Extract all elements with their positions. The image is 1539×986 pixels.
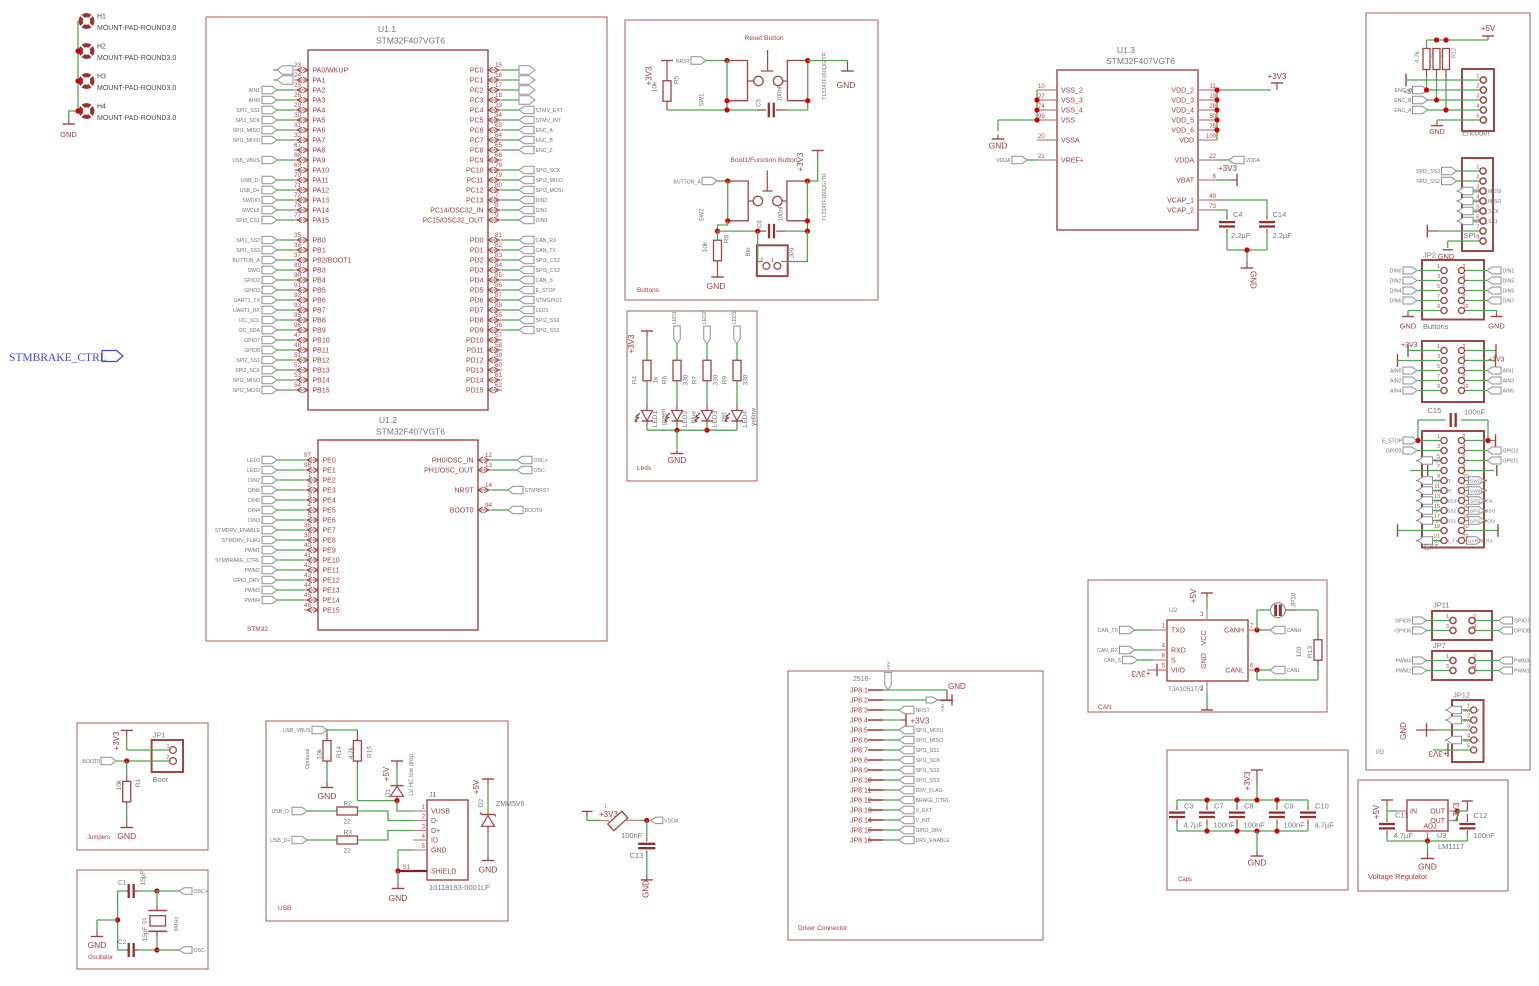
U1.2 pin 94 BOOT0 [450,502,542,514]
svg-text:81: 81 [495,232,503,239]
junction caps bottom [1274,828,1279,833]
svg-text:51: 51 [294,352,302,359]
svg-text:7: 7 [1476,225,1479,231]
U1.1 pin 59 PD12 [466,352,503,364]
svg-text:USB_D-: USB_D- [241,178,260,184]
wire NRST to SW1 [706,60,727,62]
svg-text:GPIO6: GPIO6 [1395,629,1411,635]
capacitor C14 2.2uF [1259,210,1292,250]
svg-text:C10: C10 [1315,802,1329,811]
svg-text:GND: GND [1418,862,1437,872]
svg-text:78: 78 [495,162,503,169]
svg-text:SPI3_MISO: SPI3_MISO [536,178,563,184]
wire to GND [1427,841,1429,852]
svg-text:LED3: LED3 [732,311,738,324]
svg-text:U1.3: U1.3 [1117,45,1135,55]
wire to gnd [97,919,118,921]
wire LED2 to rail [676,421,678,425]
svg-text:PWM2: PWM2 [1395,669,1411,675]
svg-text:7: 7 [1437,374,1440,380]
svg-text:PB4: PB4 [313,278,326,285]
ground SPI [1438,250,1455,261]
svg-text:PC2: PC2 [470,88,484,95]
U1.1 pin 36 PB1 [236,242,326,254]
svg-text:PE13: PE13 [323,588,340,595]
ground VSS [997,135,999,140]
svg-text:16: 16 [495,72,503,79]
svg-text:35: 35 [294,232,302,239]
svg-text:RXD: RXD [1171,648,1186,655]
svg-text:39: 39 [304,532,312,539]
svg-text:24: 24 [294,72,302,79]
svg-text:PC8: PC8 [470,148,484,155]
svg-text:PA12: PA12 [313,188,330,195]
net flag USB_D+ [270,836,337,844]
U1.1 pin 15 PC0 [470,62,535,74]
net flag SPI2_SCK [1457,207,1500,215]
net flag BUTTON_A [673,177,717,185]
svg-text:VDD_6: VDD_6 [1171,128,1194,135]
svg-text:ID: ID [431,838,438,845]
svg-text:PA2: PA2 [313,88,326,95]
svg-text:41: 41 [304,552,312,559]
svg-text:UART1_RX: UART1_RX [1468,539,1494,545]
resistor R12 4.7k [1443,48,1458,110]
ground C13 [641,875,653,898]
wire +5V rail encoder [1427,39,1489,41]
U1.1 pin 30 PA5 [235,112,325,124]
junction ENC_Z pullup [1424,87,1429,92]
svg-text:VDDA: VDDA [1175,158,1195,165]
U1.3 pin 22 VDDA [1175,154,1217,165]
svg-text:87: 87 [495,292,503,299]
svg-text:H3: H3 [97,74,106,81]
svg-text:37: 37 [294,252,302,259]
svg-text:Caps: Caps [1178,877,1192,883]
svg-text:DRV_FLAG: DRV_FLAG [916,788,943,794]
wire R15 down [356,761,358,764]
svg-text:R2: R2 [344,801,353,808]
svg-text:95: 95 [294,312,302,319]
svg-text:49: 49 [1209,194,1216,200]
svg-text:VUSB: VUSB [431,809,450,816]
U1.1 pin 67 PA8 [294,142,325,154]
wire cap gnd rail [1227,249,1267,251]
ground reset button [837,61,856,91]
svg-text:PA14: PA14 [313,208,330,215]
svg-text:5: 5 [1476,114,1479,120]
wire R4 to LED1 [646,381,648,405]
U1.1 pin 53 PB14 [233,372,330,384]
AIN pins 3/4 power bars [1398,354,1496,367]
svg-text:65: 65 [495,142,503,149]
U1.1 pin 26 PA3 [248,92,325,104]
U1.1 pin 77 PA15 [236,212,329,224]
svg-text:PC1: PC1 [470,78,484,85]
svg-text:AIN0: AIN0 [1390,369,1402,375]
svg-text:V_EXT: V_EXT [916,808,933,814]
wire LED1 to rail [646,421,648,425]
svg-text:100nF: 100nF [778,84,784,101]
svg-text:STMBRAKE_CTRL: STMBRAKE_CTRL [215,558,260,564]
svg-text:31: 31 [294,122,302,129]
jumper JP1 Boot [152,731,183,785]
svg-text:PB7: PB7 [313,308,326,315]
svg-text:SW2: SW2 [700,208,706,222]
svg-text:GND: GND [479,865,498,875]
wire C15 right down [1487,420,1489,441]
svg-text:SPI2_SS3: SPI2_SS3 [536,328,560,334]
section box Oscillator [77,870,208,969]
junction SW1 top-right [805,58,810,63]
svg-text:10k: 10k [652,81,659,92]
wire SW2 left riser [727,181,729,221]
svg-text:3: 3 [1437,444,1440,450]
svg-text:ADJ: ADJ [1423,824,1436,831]
svg-text:H4: H4 [97,104,106,111]
svg-text:21: 21 [1434,534,1440,540]
svg-text:DIN7: DIN7 [248,478,260,484]
U1.3 pin 27 VSS_3 [1037,94,1083,105]
svg-text:89: 89 [294,262,302,269]
svg-text:STMDRV_ENABLE: STMDRV_ENABLE [215,528,261,534]
svg-text:I2C_SCL: I2C_SCL [239,318,260,324]
svg-text:DIN1: DIN1 [536,208,548,214]
svg-text:C12: C12 [1474,811,1488,820]
svg-text:SWCLK: SWCLK [1470,479,1488,485]
section box Driver Connector [788,671,1043,940]
U1.1 pin 82 PD1 [470,242,557,254]
U1.1 pin 68 PA9 [232,152,325,164]
svg-text:4.7µF: 4.7µF [1315,821,1335,830]
svg-text:3: 3 [1476,94,1479,100]
svg-text:GND: GND [88,940,107,950]
svg-text:OSC+: OSC+ [194,889,208,895]
capacitor C5 100nF [757,84,808,117]
svg-text:33: 33 [495,102,503,109]
svg-text:VSS_3: VSS_3 [1061,98,1083,105]
U1.3 pin 73 VCAP_2 [1167,204,1217,215]
svg-text:SPI1_MISO: SPI1_MISO [916,738,943,744]
svg-text:J1: J1 [429,790,437,799]
svg-text:R14: R14 [336,746,343,758]
svg-text:PB11: PB11 [313,348,330,355]
svg-text:83: 83 [495,252,503,259]
EXT pins 9/10 SWDAT/SWCLK [1416,474,1488,485]
U2 pin 4 RXD [1097,644,1167,655]
JP12 pin 5 [1467,744,1477,754]
svg-text:+3V3: +3V3 [1428,749,1447,758]
SPI pin 7 [1476,225,1486,235]
svg-text:10k: 10k [702,241,709,252]
svg-text:93: 93 [294,302,302,309]
J1 pin 5 GND [413,844,447,855]
U1.3 pin 11 VDD_2 [1171,84,1217,95]
wire VCAP_1 to C14 [1217,200,1267,216]
wire BUTTON_A to SW2 [717,180,728,182]
U1.1 pin 55 PD8 [470,312,560,324]
caps top rail [1177,799,1308,801]
svg-text:120: 120 [1296,646,1303,657]
connector pin JP8.11 [850,786,943,794]
svg-text:9: 9 [495,212,499,219]
svg-text:PE1: PE1 [323,468,336,475]
net flag SPI2_MOSI [1457,187,1502,195]
U1.2 pin 41 PE10 [215,552,340,564]
power +3V3 caps [1243,770,1263,790]
U3 OUT pin [1448,810,1455,812]
junction VSS_4 [1034,107,1039,112]
resistor R6 330 [662,360,690,385]
svg-text:JP8.12: JP8.12 [850,798,872,805]
ground JP12 pin3 [1399,722,1470,740]
Encoder pin 4 [1462,104,1487,114]
junction CANL [1254,667,1259,672]
svg-text:PWM3: PWM3 [244,588,260,594]
svg-text:330: 330 [713,374,720,385]
wire J1 GND [398,849,413,851]
U2 pin 5 VI/O +3V3 [1131,664,1167,679]
svg-text:1: 1 [1476,165,1479,171]
U1.2 pin 44 PE13 [244,582,339,594]
svg-text:+3V3: +3V3 [1268,72,1287,81]
svg-text:GPIO2: GPIO2 [244,278,260,284]
svg-text:GND: GND [1399,722,1408,740]
svg-text:9: 9 [1437,384,1440,390]
svg-text:GND: GND [989,141,1008,151]
svg-text:GND: GND [1488,322,1505,331]
svg-text:30: 30 [294,112,302,119]
svg-text:PD10: PD10 [466,338,484,345]
svg-text:20: 20 [1038,134,1045,140]
svg-text:IN: IN [1410,809,1417,816]
U1.3 pin 21 VREF+ [1037,154,1084,165]
U1.3 pin 28 VDD_4 [1171,104,1217,115]
svg-text:19: 19 [1434,524,1440,530]
junction [724,58,729,63]
svg-text:66: 66 [495,152,503,159]
svg-text:8: 8 [1463,294,1466,300]
LED LED2 blue [665,410,698,427]
svg-text:GND: GND [1201,653,1208,669]
junction EXT pin2 [1485,438,1490,443]
svg-text:PE4: PE4 [323,498,336,505]
caps bottom rail [1177,830,1308,832]
svg-text:100nF: 100nF [1464,408,1486,417]
svg-text:CAN_TX: CAN_TX [536,248,557,254]
svg-text:R8: R8 [724,234,731,243]
svg-text:AIN5: AIN5 [1503,389,1515,395]
svg-text:ENC_Z: ENC_Z [1394,88,1411,94]
ground jumpers [117,823,136,841]
junction caps top [1274,797,1279,802]
svg-text:BOOT0: BOOT0 [450,508,474,515]
U1.1 pin 64 PC7 [470,132,553,144]
svg-text:PD6: PD6 [470,298,484,305]
svg-text:LED2: LED2 [247,468,260,474]
svg-text:SPI: SPI [1464,231,1476,240]
net flag OSC+ [157,888,208,895]
U1.2 pin 40 PE9 [244,542,335,554]
mounting hole H1 MOUNT-PAD-ROUND3.0 [80,14,176,33]
Encoder pin 3 [1462,94,1487,104]
U1.1 pin 76 PA14 [242,202,330,214]
U1.1 pin 25 PA2 [248,82,325,94]
ground caps section [1256,851,1258,856]
svg-text:29: 29 [294,102,302,109]
net flag VDDA at VREF+ [996,156,1037,164]
svg-text:9: 9 [1437,304,1440,310]
svg-text:UART1_TX: UART1_TX [234,298,261,304]
svg-text:STMV_EXT: STMV_EXT [536,108,564,114]
svg-text:STM32F407VGT6: STM32F407VGT6 [1106,56,1175,66]
U2 pin 1 TXD [1098,624,1167,635]
svg-text:SPI1_MOSI: SPI1_MOSI [233,138,260,144]
junction CANH [1254,627,1259,632]
svg-text:3: 3 [1446,624,1449,630]
U1.1 pin 52 PB13 [235,362,330,374]
svg-text:PC6: PC6 [470,128,484,135]
junction OSC- node [154,947,159,952]
svg-text:PH1/OSC_OUT: PH1/OSC_OUT [424,468,474,475]
svg-text:C2: C2 [118,939,127,946]
J1 pin 3 D+ [413,825,440,836]
junction VDD bus [1214,97,1219,102]
svg-text:C8: C8 [1244,802,1254,811]
svg-text:SPI3_CS2: SPI3_CS2 [536,258,560,264]
svg-text:58: 58 [495,342,503,349]
power +3V3 JP12 pin5 [1428,743,1470,758]
svg-text:E_STOP: E_STOP [536,288,557,294]
junction H4 [75,108,80,113]
U1.2 pin 46 PE15 [304,602,340,614]
junction C6 right [805,229,810,234]
diode D2 ZMM5V6 zener [478,784,525,856]
wire JP10 to R13 [1286,609,1298,611]
svg-text:GPIO7: GPIO7 [1514,619,1530,625]
svg-text:DIN6: DIN6 [1390,299,1402,305]
svg-text:TL3342F160QG/TR: TL3342F160QG/TR [822,173,828,221]
svg-text:R6: R6 [662,375,669,384]
wire C13 to GND [646,853,648,875]
svg-text:+3V3: +3V3 [627,334,636,353]
AIN pins 1/2 +3V3 [1401,342,1505,364]
wire OUT node [1453,820,1457,822]
power +3V3 jumper [112,730,133,750]
svg-text:71: 71 [294,182,302,189]
svg-text:USB_D+: USB_D+ [240,188,260,194]
svg-text:VSS_4: VSS_4 [1061,108,1083,115]
svg-text:PD11: PD11 [467,348,484,355]
svg-text:PA1: PA1 [313,78,326,85]
svg-text:C1: C1 [118,880,127,887]
section box USB [266,721,508,921]
svg-text:USB_D-: USB_D- [271,809,290,815]
U1.1 pin 33 PC4 [470,102,564,114]
svg-text:4: 4 [1463,274,1466,280]
svg-text:PC5: PC5 [470,118,484,125]
U1.1 pin 84 PD3 [470,262,560,274]
U1.2 pin 5 PE6 [248,512,336,524]
U1.1 pin 8 PC14/OSC32_IN [430,202,547,214]
svg-text:AIN0: AIN0 [248,98,260,104]
U1.1 pin 34 PC5 [470,112,562,124]
wire LED4 to rail [736,421,738,425]
U1.1 pin 91 PB5 [244,282,326,294]
svg-text:JP8.2: JP8.2 [850,698,868,705]
resistor R5 10k [652,66,681,111]
svg-text:4: 4 [1467,734,1470,740]
capacitor C4 2.2uF [1219,210,1251,250]
net flag ENC_A [1394,106,1462,114]
svg-text:STM32: STM32 [247,626,268,633]
U1.2 pin 43 PE12 [233,572,339,584]
svg-text:21: 21 [1038,154,1045,160]
svg-text:NRST: NRST [916,708,931,714]
U2 pin 8 S [1104,654,1167,665]
JP2 pins 5/6 DIN4/DIN5 [1390,284,1515,295]
svg-text:VSSA: VSSA [1061,138,1080,145]
svg-text:GPIO_DRV: GPIO_DRV [233,578,260,584]
svg-text:PH0/OSC_IN: PH0/OSC_IN [432,458,474,465]
svg-text:PE9: PE9 [323,548,336,555]
power +3V3 for L1 [582,810,618,819]
EXT pins 3/4 GPIO3/GPIO2 [1386,444,1519,455]
svg-text:JP9: JP9 [790,247,796,258]
ground R8 [707,277,726,291]
wire shield to GND [397,871,399,884]
svg-text:BUTTON_A: BUTTON_A [673,180,701,186]
crystal Q1 8MHz [142,891,180,950]
junction cap rail [1244,247,1249,252]
U1.3 pin 20 VSSA [1037,134,1080,145]
U1.2 pin 3 PE4 [248,492,336,504]
svg-text:18: 18 [1463,514,1469,520]
U2 pin 2 GND [1200,681,1213,710]
svg-text:5: 5 [1467,744,1470,750]
mounting hole H3 MOUNT-PAD-ROUND3.0 [80,74,176,93]
svg-text:GND: GND [117,831,136,841]
SPI pin 8 [1476,235,1486,245]
svg-text:1: 1 [771,258,774,264]
wire VCAP_2 to C4 [1217,210,1227,216]
svg-text:JP8.4: JP8.4 [850,718,868,725]
wire +5V to IN [1386,806,1388,811]
svg-text:80: 80 [495,182,503,189]
net flag JP12 pin4 SWCLK [1445,736,1481,744]
svg-text:PC4: PC4 [470,108,484,115]
resistor R1 10k [116,761,142,802]
svg-text:7: 7 [1437,464,1440,470]
svg-text:1: 1 [1467,704,1470,710]
svg-text:84: 84 [495,262,503,269]
U1.1 pin 78 PC10 [466,162,561,174]
section box Leds [627,311,757,481]
svg-text:VDD_5: VDD_5 [1171,118,1194,125]
svg-text:13: 13 [485,462,493,469]
svg-text:46: 46 [304,602,312,609]
AIN pins 5/6 AIN0/AIN1 [1390,364,1514,375]
svg-text:PA11: PA11 [313,178,329,185]
capacitor C11 4.7uF [1379,811,1413,842]
svg-text:GPIO1: GPIO1 [1503,459,1519,465]
JP12 pin 2 [1467,714,1477,724]
svg-text:88: 88 [495,302,503,309]
svg-text:5: 5 [1437,284,1440,290]
svg-text:3: 3 [1446,664,1449,670]
junction caps bottom [1234,828,1239,833]
junction R12 top [1443,37,1448,42]
